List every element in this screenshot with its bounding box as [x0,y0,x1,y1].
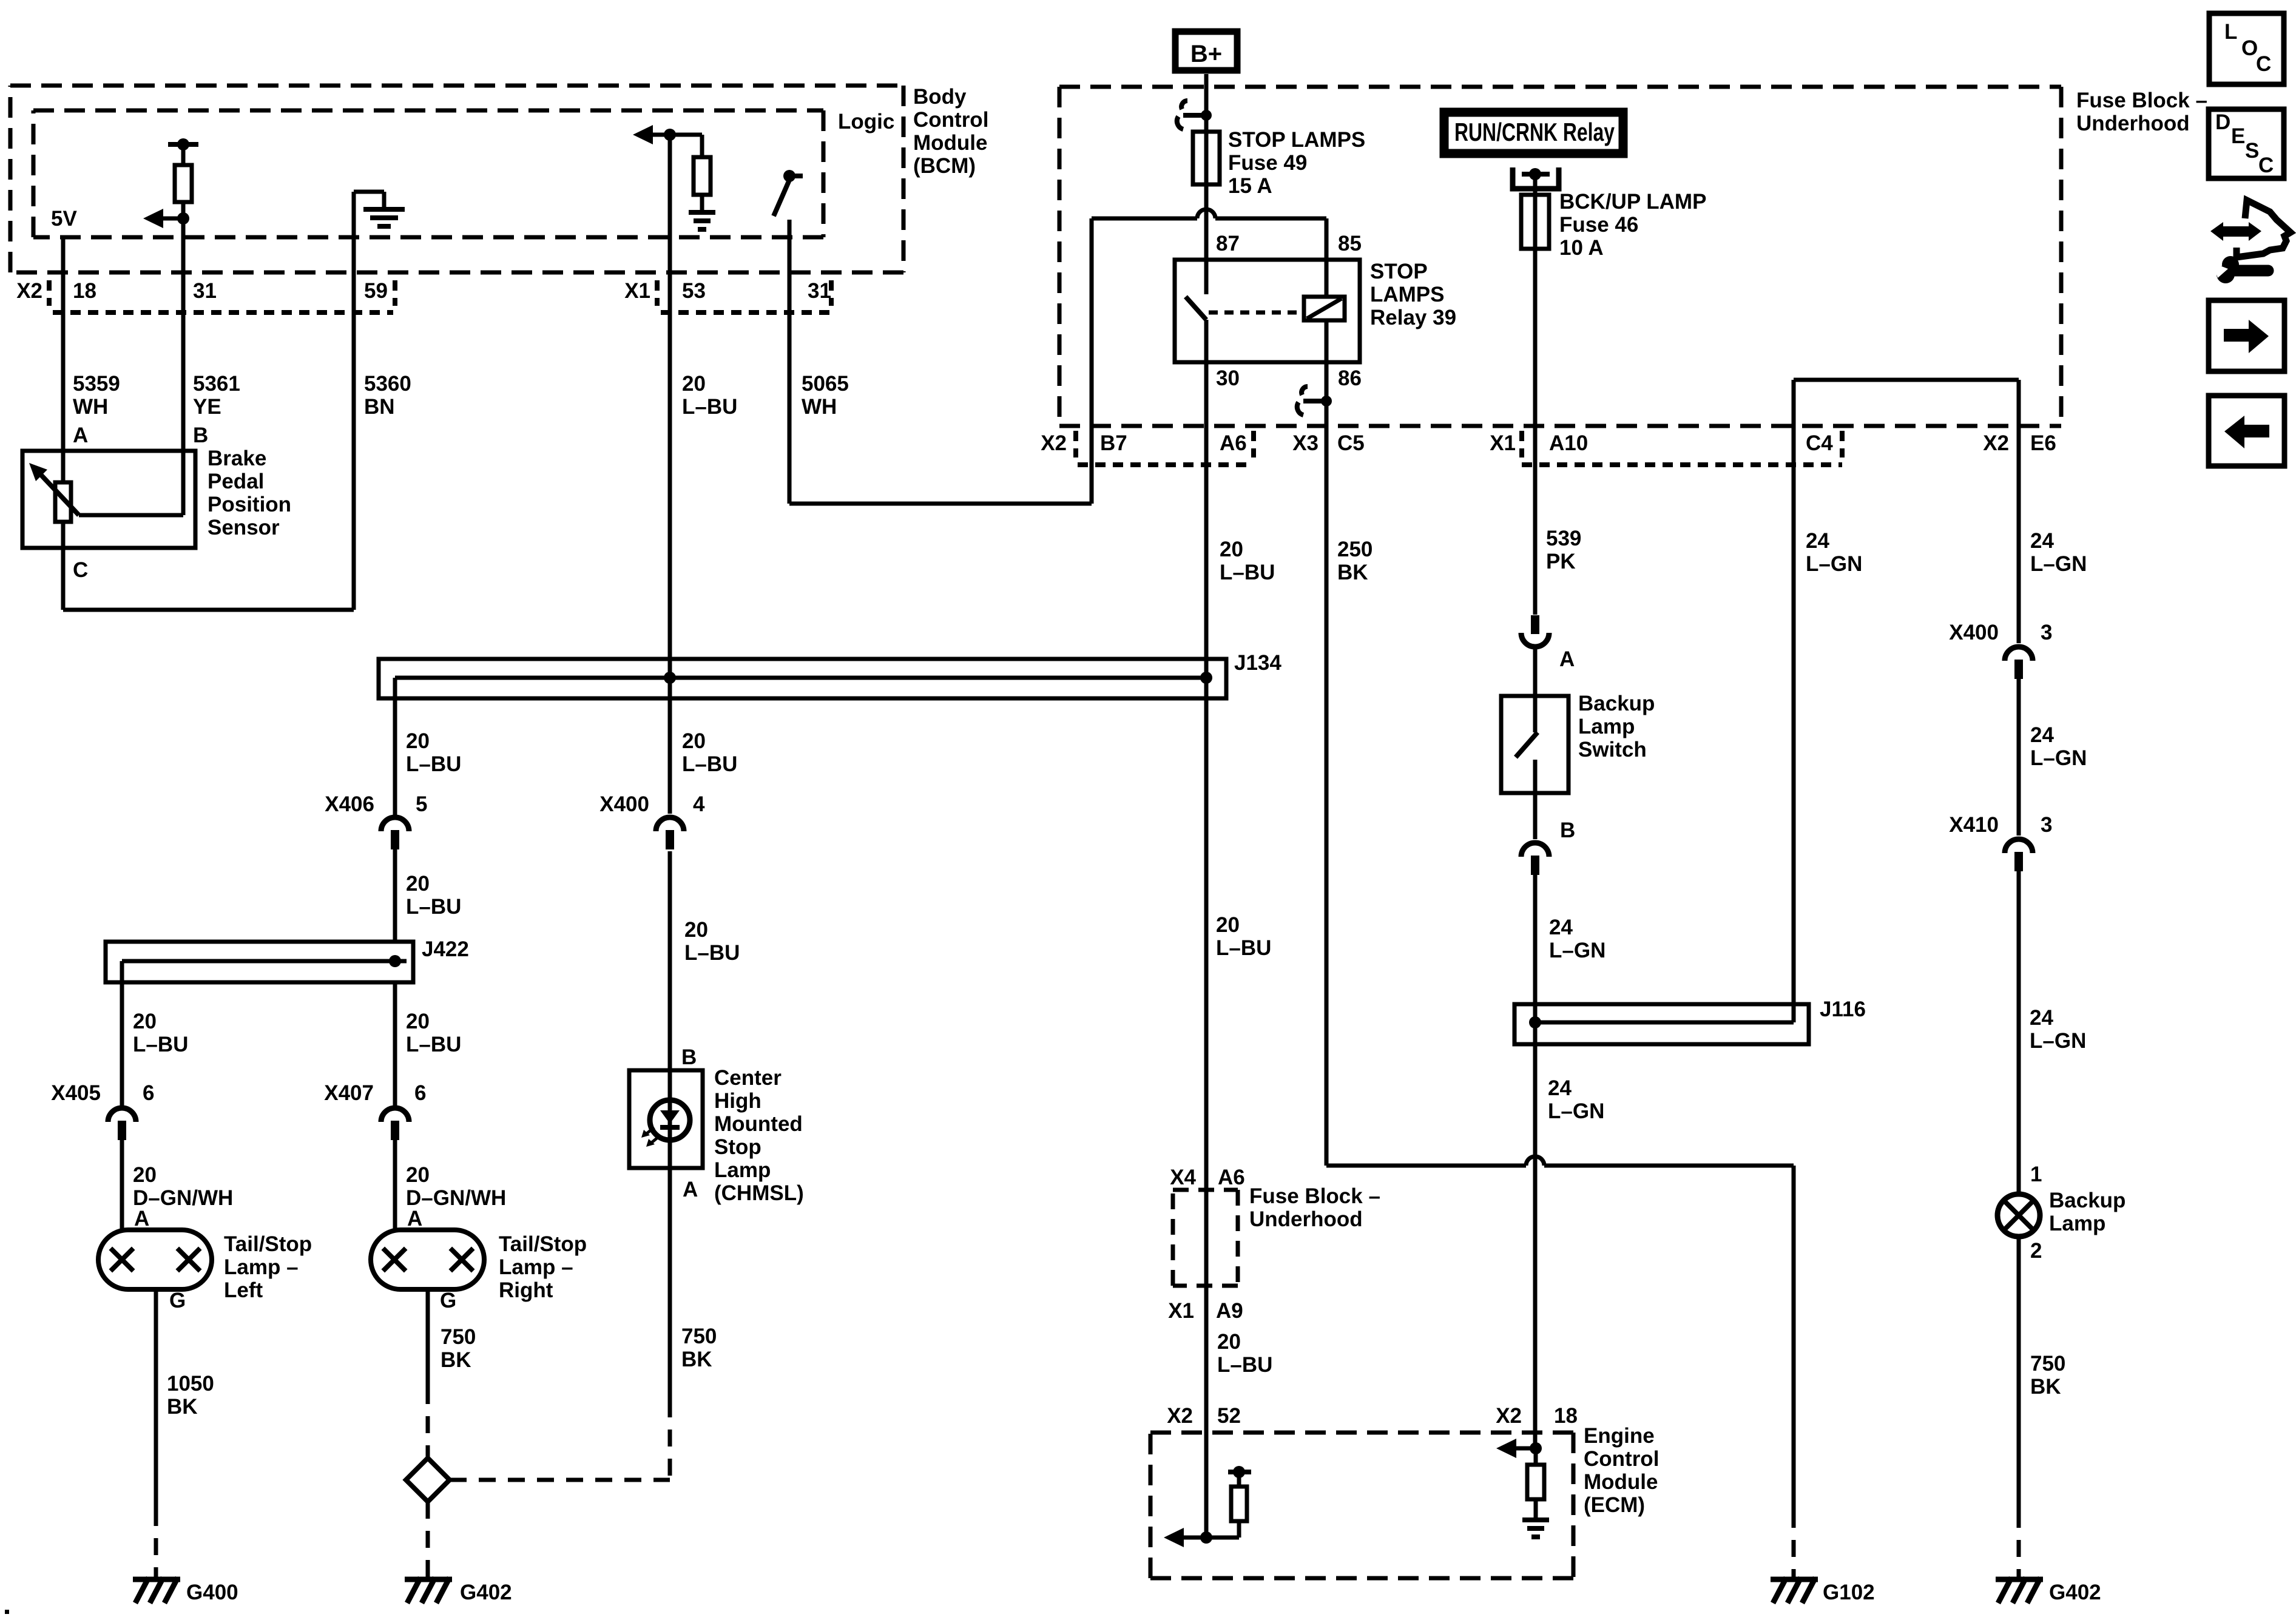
svg-text:Right: Right [499,1278,553,1302]
svg-text:L–BU: L–BU [682,752,737,776]
svg-text:20: 20 [1220,538,1243,561]
svg-text:Fuse Block –: Fuse Block – [1249,1184,1380,1208]
svg-text:5: 5 [416,792,427,816]
svg-text:BK: BK [1337,561,1368,584]
svg-text:Left: Left [224,1278,263,1302]
svg-text:Body: Body [913,85,967,109]
svg-text:A: A [134,1207,149,1230]
svg-text:A: A [407,1207,422,1230]
svg-text:G: G [169,1289,186,1312]
svg-text:539: 539 [1546,527,1581,550]
svg-text:20: 20 [406,729,430,753]
svg-text:20: 20 [1216,913,1240,937]
svg-text:X400: X400 [599,792,649,816]
svg-text:C5: C5 [1337,431,1365,455]
svg-text:G402: G402 [460,1581,512,1604]
svg-text:L–BU: L–BU [684,941,740,965]
svg-text:52: 52 [1217,1404,1241,1428]
svg-text:Module: Module [913,131,987,155]
svg-text:Lamp: Lamp [714,1158,771,1182]
svg-text:Sensor: Sensor [208,516,280,539]
svg-text:Fuse 46: Fuse 46 [1559,213,1638,237]
svg-text:Relay 39: Relay 39 [1370,306,1456,329]
svg-text:RUN/CRNK Relay: RUN/CRNK Relay [1454,118,1615,146]
svg-text:5360: 5360 [364,372,411,396]
svg-text:3: 3 [2041,621,2052,644]
svg-text:A: A [683,1178,698,1201]
svg-text:X2: X2 [1496,1404,1522,1428]
svg-text:18: 18 [73,279,96,303]
svg-text:S: S [2245,139,2259,163]
svg-text:1: 1 [2030,1163,2042,1186]
svg-text:X410: X410 [1949,813,1999,837]
svg-text:L–GN: L–GN [1548,1099,1604,1123]
svg-text:X1: X1 [1490,431,1516,455]
svg-text:Fuse 49: Fuse 49 [1228,151,1307,175]
svg-text:E: E [2231,124,2245,148]
svg-text:J422: J422 [422,937,469,961]
svg-text:20: 20 [682,729,706,753]
svg-text:X1: X1 [1168,1299,1194,1323]
svg-text:Lamp: Lamp [1578,715,1635,738]
svg-text:L–BU: L–BU [682,395,737,419]
svg-text:C: C [2256,52,2271,76]
svg-text:STOP LAMPS: STOP LAMPS [1228,128,1365,152]
svg-text:Stop: Stop [714,1135,761,1159]
svg-text:Tail/Stop: Tail/Stop [224,1232,312,1256]
svg-text:Fuse Block –: Fuse Block – [2076,89,2207,112]
svg-text:B7: B7 [1100,431,1127,455]
svg-text:L–BU: L–BU [1220,561,1275,584]
svg-text:G102: G102 [1823,1581,1875,1604]
svg-text:E6: E6 [2030,431,2056,455]
svg-text:C: C [73,558,88,582]
svg-text:STOP: STOP [1370,260,1428,283]
svg-text:B: B [193,424,208,447]
svg-text:Position: Position [208,493,291,516]
svg-text:L–BU: L–BU [1217,1353,1272,1377]
svg-text:24: 24 [2030,529,2054,553]
svg-text:X405: X405 [51,1081,101,1105]
svg-text:87: 87 [1216,232,1240,255]
svg-text:Tail/Stop: Tail/Stop [499,1232,587,1256]
svg-text:20: 20 [133,1163,157,1187]
svg-text:6: 6 [143,1081,154,1105]
svg-text:High: High [714,1089,761,1113]
svg-text:J116: J116 [1820,998,1866,1021]
svg-text:Backup: Backup [2049,1189,2125,1212]
svg-text:X406: X406 [325,792,374,816]
svg-text:Pedal: Pedal [208,470,264,493]
svg-text:(BCM): (BCM) [913,154,976,178]
svg-text:85: 85 [1338,232,1362,255]
svg-text:X2: X2 [1167,1404,1193,1428]
svg-text:Control: Control [1584,1447,1659,1471]
svg-text:L–GN: L–GN [2030,552,2087,576]
svg-text:(CHMSL): (CHMSL) [714,1181,804,1205]
svg-text:X3: X3 [1292,431,1319,455]
svg-text:20: 20 [682,372,706,396]
svg-text:L: L [2224,20,2237,44]
svg-text:C: C [2258,154,2274,177]
svg-text:5065: 5065 [802,372,849,396]
svg-text:X407: X407 [324,1081,374,1105]
svg-text:A: A [73,424,88,447]
svg-text:C4: C4 [1806,431,1833,455]
svg-text:750: 750 [441,1325,476,1349]
svg-text:BK: BK [441,1348,471,1372]
svg-text:Lamp –: Lamp – [224,1255,299,1279]
svg-text:Engine: Engine [1584,1424,1655,1448]
svg-text:L–GN: L–GN [1806,552,1862,576]
svg-text:6: 6 [414,1081,426,1105]
svg-text:750: 750 [2030,1352,2065,1376]
svg-text:15 A: 15 A [1228,174,1272,198]
svg-text:10 A: 10 A [1559,236,1604,260]
svg-text:750: 750 [681,1325,717,1348]
svg-text:L–GN: L–GN [2030,746,2087,770]
svg-text:20: 20 [406,1010,430,1033]
svg-text:L–BU: L–BU [133,1033,188,1056]
svg-text:BK: BK [681,1348,712,1371]
svg-text:B: B [1560,819,1575,842]
svg-text:A9: A9 [1216,1299,1243,1323]
svg-text:Backup: Backup [1578,692,1655,715]
svg-text:A6: A6 [1218,1166,1245,1189]
svg-text:30: 30 [1216,366,1240,390]
svg-text:Brake: Brake [208,447,266,470]
svg-text:24: 24 [1548,1076,1572,1100]
svg-text:31: 31 [193,279,217,303]
svg-text:3: 3 [2041,813,2052,837]
svg-text:G400: G400 [186,1581,238,1604]
svg-text:WH: WH [73,395,108,419]
svg-text:4: 4 [693,792,705,816]
svg-text:LAMPS: LAMPS [1370,283,1445,306]
svg-text:Control: Control [913,108,988,132]
svg-text:5361: 5361 [193,372,240,396]
svg-text:Lamp –: Lamp – [499,1255,573,1279]
svg-text:5V: 5V [51,207,77,231]
svg-text:18: 18 [1554,1404,1578,1428]
svg-text:Underhood: Underhood [2076,112,2190,135]
svg-text:G402: G402 [2049,1581,2101,1604]
svg-text:X2: X2 [16,279,42,303]
svg-text:1050: 1050 [167,1372,214,1396]
svg-text:20: 20 [1217,1330,1241,1354]
svg-text:59: 59 [364,279,388,303]
svg-text:(ECM): (ECM) [1584,1493,1645,1517]
svg-text:Underhood: Underhood [1249,1207,1363,1231]
svg-text:X4: X4 [1170,1166,1196,1189]
svg-text:86: 86 [1338,366,1362,390]
svg-text:BCK/UP LAMP: BCK/UP LAMP [1559,190,1706,214]
svg-text:53: 53 [682,279,706,303]
svg-text:20: 20 [684,918,708,942]
svg-text:J134: J134 [1234,651,1281,675]
svg-text:A: A [1559,647,1575,671]
svg-text:BN: BN [364,395,395,419]
svg-text:X2: X2 [1041,431,1067,455]
svg-text:X400: X400 [1949,621,1999,644]
svg-text:Mounted: Mounted [714,1112,803,1136]
svg-text:YE: YE [193,395,221,419]
svg-text:24: 24 [2030,1006,2053,1030]
svg-text:X1: X1 [624,279,650,303]
svg-text:5359: 5359 [73,372,120,396]
svg-text:Logic: Logic [838,110,894,133]
svg-text:A10: A10 [1549,431,1588,455]
svg-text:L–BU: L–BU [406,752,461,776]
svg-text:L–GN: L–GN [2030,1029,2086,1053]
svg-text:250: 250 [1337,538,1373,561]
svg-text:L–BU: L–BU [406,895,461,919]
svg-text:24: 24 [1806,529,1829,553]
svg-text:D: D [2215,110,2230,134]
svg-text:Center: Center [714,1066,782,1090]
svg-text:Module: Module [1584,1470,1658,1494]
svg-text:20: 20 [406,1163,430,1187]
svg-text:Lamp: Lamp [2049,1212,2105,1235]
svg-text:2: 2 [2030,1239,2042,1263]
svg-text:31: 31 [808,279,831,303]
svg-text:24: 24 [1549,916,1573,939]
svg-text:A6: A6 [1220,431,1247,455]
svg-text:24: 24 [2030,723,2054,747]
svg-text:L–BU: L–BU [406,1033,461,1056]
svg-text:BK: BK [2030,1375,2061,1399]
svg-text:B: B [681,1045,697,1069]
svg-text:20: 20 [133,1010,157,1033]
svg-text:L–BU: L–BU [1216,936,1271,960]
svg-text:G: G [440,1289,456,1312]
svg-text:WH: WH [802,395,837,419]
svg-text:BK: BK [167,1395,198,1419]
svg-text:B+: B+ [1190,41,1222,67]
svg-text:PK: PK [1546,550,1576,573]
svg-text:X2: X2 [1983,431,2009,455]
svg-text:Switch: Switch [1578,738,1647,761]
svg-text:20: 20 [406,872,430,896]
svg-text:L–GN: L–GN [1549,939,1606,962]
